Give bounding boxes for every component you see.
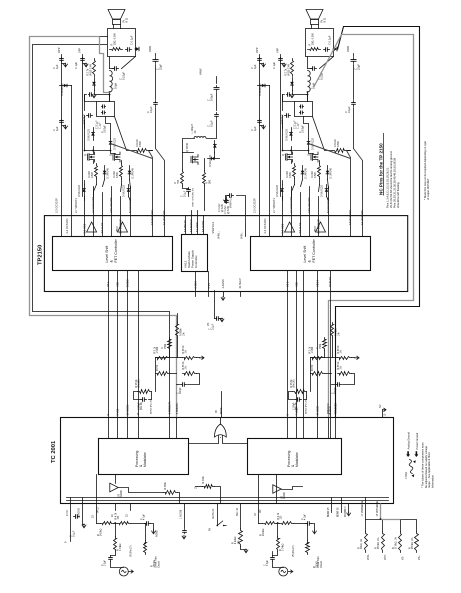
resistor R row1a fb1 (156, 357, 170, 360)
speaker LS1 (108, 10, 125, 20)
transistor Q TIP30 supply switch (191, 155, 198, 165)
resistor R row2a fb2 (311, 372, 325, 376)
sense divider resistor R 287k 1% (382, 532, 385, 553)
wire diagonal load box to filter cap (320, 57, 334, 69)
wire fb mesh 2 (311, 351, 325, 358)
svg-text:(Pin 26): (Pin 26) (139, 379, 141, 387)
svg-text:R 48.7k: R 48.7k (338, 345, 340, 354)
svg-text:3.1 OCSENS: 3.1 OCSENS (163, 210, 166, 225)
svg-text:390pF: 390pF (180, 387, 182, 394)
snubber box channel 1 (97, 102, 115, 117)
resistor R 48.7k row1b fb2 (338, 357, 352, 360)
resistor R 28k fb2 (Pin 26) (293, 390, 307, 394)
svg-text:Circuit: Circuit (320, 561, 323, 568)
svg-text:Power Ground: Power Ground (415, 432, 419, 449)
svg-text:V1B: V1B (295, 282, 299, 287)
resistor R bias 2.7k (93, 59, 96, 77)
wire bridge mesh (283, 121, 292, 151)
capacitor C 4.7uF trim (145, 523, 147, 525)
capacitor C snubber 2 (300, 112, 301, 114)
net arrow fb1 (200, 356, 205, 359)
svg-text:4.6 LLO1: 4.6 LLO1 (298, 222, 302, 233)
svg-text:2.8 LO1COM: 2.8 LO1COM (109, 198, 113, 213)
resistor R 750 supply (181, 170, 184, 186)
capacitor C 1uF lower (61, 120, 63, 121)
capacitor C 4.7uF 6.3V VNW out (226, 197, 228, 200)
svg-text:Modulator: Modulator (143, 451, 147, 467)
svg-text:R 4.7k: R 4.7k (278, 512, 280, 519)
capacitor C snubber top (89, 94, 90, 96)
sense divider resistor R 20k 1% (365, 532, 368, 553)
wire speaker LS1 leads (113, 25, 115, 29)
resistor R row1a fb2 (311, 357, 325, 360)
speaker LS2 (306, 10, 323, 20)
svg-text:VPP: VPP (57, 47, 61, 53)
sense divider resistor R 287k 1% (415, 532, 419, 553)
signal source VI offset (111, 562, 124, 568)
wire VH12 top pins (185, 216, 187, 235)
ground (83, 63, 87, 65)
svg-text:VS: VS (119, 493, 121, 497)
svg-text:750k: 750k (164, 343, 167, 349)
IC processing/modulator channel 2 (248, 439, 342, 475)
IC processing/modulator channel 1 (99, 439, 189, 475)
signal source VI2 offset (273, 562, 284, 568)
pin 17 VNNSENSE (365, 504, 367, 520)
svg-text:D 1N4148: D 1N4148 (305, 168, 308, 179)
wire OCSENS column channel 2 (354, 149, 363, 237)
zener diode VN10 (94, 78, 96, 91)
svg-text:NC: NC (379, 404, 382, 408)
inductor L2 10uH (308, 71, 311, 93)
svg-text:TC 2001: TC 2001 (51, 440, 57, 463)
svg-text:2.8 LO1COM: 2.8 LO1COM (307, 198, 311, 213)
pin BEMF 25 (331, 504, 333, 513)
svg-text:2.7 VBOOT1: 2.7 VBOOT1 (272, 198, 276, 213)
svg-text:VB18: VB18 (315, 226, 317, 232)
svg-text:4.99kΩ: 4.99kΩ (235, 536, 237, 544)
capacitor C snubber top (287, 94, 288, 96)
wire OUT2N feedback loop (outer) (336, 27, 420, 418)
svg-text:C 28pF: C 28pF (139, 402, 141, 410)
svg-text:3.3µF: 3.3µF (267, 559, 269, 566)
resistor R 4.99k beep (239, 529, 243, 547)
svg-text:C 1µF: C 1µF (272, 61, 276, 69)
svg-text:VNW→: VNW→ (218, 231, 221, 239)
svg-text:1µF: 1µF (55, 126, 59, 131)
svg-text:VNW 41.4: VNW 41.4 (212, 221, 215, 233)
svg-text:2.7 VBOOT1: 2.7 VBOOT1 (74, 198, 78, 213)
diode D2a MUR120 (291, 128, 293, 141)
resistor R 88.7k row2b fb2 (338, 372, 352, 376)
wire fb mesh 1 (156, 351, 170, 358)
net arrow VI2 (288, 570, 293, 573)
wire OUT1N feedback loop (33, 45, 170, 418)
svg-text:2.4 OCS1SN: 2.4 OCS1SN (263, 218, 267, 233)
svg-text:C 28pF: C 28pF (294, 402, 296, 410)
svg-text:3.1 OCSENS: 3.1 OCSENS (361, 210, 364, 225)
ground (62, 125, 66, 127)
capacitor C 390pF fb1 (181, 384, 183, 386)
svg-text:0.1µF: 0.1µF (347, 106, 351, 113)
transistor Q2b output MOSFET (311, 152, 318, 162)
wire gray fb taps ch1 (177, 314, 179, 323)
svg-text:of output MOSFET: of output MOSFET (426, 178, 430, 200)
diode D gate a (302, 166, 304, 180)
svg-text:C 1µF: C 1µF (98, 122, 101, 129)
resistor R internal a (164, 491, 178, 495)
svg-text:1µF: 1µF (253, 64, 257, 69)
wire bridge mesh (85, 121, 94, 151)
wire speaker+ to filter (109, 57, 111, 69)
svg-text:VN10 2.4V: VN10 2.4V (288, 64, 291, 76)
capacitor C 1uF VPP bypass 2 (280, 58, 282, 59)
resistor R gate 22 ohm a (95, 164, 98, 179)
inductor L1 10uH (110, 71, 113, 93)
capacitor C 0.1uF VNN (155, 101, 157, 103)
resistor R 150 trim (118, 522, 131, 525)
svg-text:R 360k: R 360k (165, 481, 167, 489)
capacitor C 4.7uF trim ch2 (306, 523, 308, 525)
IC VH12 switch-mode power supply controller (182, 235, 208, 272)
svg-text:R 88.7k: R 88.7k (338, 361, 340, 370)
wire diagonal load box to filter cap (122, 57, 136, 69)
wire internal bottom continuations ch2 (258, 475, 260, 504)
node speaker return junction (307, 91, 309, 93)
svg-text:C 1µF: C 1µF (74, 61, 78, 69)
wire supply mesh (183, 139, 195, 153)
svg-text:8.6 BW PB: 8.6 BW PB (184, 220, 187, 232)
svg-text:360: 360 (209, 179, 212, 184)
pin 20 VP12 (96, 504, 98, 524)
TP2150 pin wires channel 2 (282, 197, 284, 237)
capacitor C snubber 1 (300, 106, 301, 108)
svg-text:D MUR120: D MUR120 (286, 129, 289, 141)
wire VNN rail (155, 65, 157, 100)
svg-text:5 VS: 5 VS (208, 283, 211, 289)
svg-text:4 FBKINV1: 4 FBKINV1 (177, 402, 179, 414)
capacitor C 0.1uF VNN (353, 101, 355, 103)
wire internal pin continuations ch1 (108, 418, 110, 439)
svg-text:VNN-: VNN- (367, 554, 370, 560)
node speaker return junction (109, 91, 111, 93)
svg-text:Pins 1,3,4,8,11,13,15,16,19,26: Pins 1,3,4,8,11,13,15,16,19,26,21, (385, 167, 389, 208)
svg-text:0.1µF: 0.1µF (72, 530, 75, 537)
resistor R 24.9k trim ch2 (263, 522, 277, 525)
wire OUT1P feedback loop (gray) (100, 36, 108, 38)
svg-text:BEF 18: BEF 18 (236, 507, 239, 516)
svg-text:VNW: VNW (199, 68, 203, 75)
resistor R 150 trim ch2 (280, 522, 294, 525)
svg-text:VNN: VNN (148, 46, 152, 52)
svg-text:FBKOUT2: FBKOUT2 (328, 403, 330, 414)
svg-text:D MUR120: D MUR120 (312, 138, 315, 150)
wire speaker+ to filter (307, 57, 309, 69)
switch S1 mute (217, 521, 226, 526)
svg-text:0.1µF: 0.1µF (183, 190, 186, 197)
svg-text:VNW 41.4: VNW 41.4 (230, 196, 233, 208)
svg-text:AGND: AGND (283, 492, 286, 499)
zener diode VN10 (292, 78, 294, 91)
svg-text:1000pF: 1000pF (303, 125, 305, 133)
svg-text:4.7µF: 4.7µF (144, 513, 146, 520)
bus stub BEEP (240, 292, 242, 297)
resistor R 24.9k trim (101, 522, 114, 525)
svg-text:1/16W: 1/16W (157, 346, 159, 353)
svg-text:750k: 750k (319, 343, 322, 349)
svg-text:DCDI 16: DCDI 16 (328, 276, 332, 287)
pin 18 VPPSENSE (gray) (380, 504, 382, 520)
svg-text:C 1µF: C 1µF (296, 122, 299, 129)
svg-text:D MUR120: D MUR120 (61, 83, 64, 96)
svg-text:1%: 1% (186, 350, 188, 353)
wire OCSENS column channel 1 (156, 149, 165, 237)
svg-text:2.3 OCS1SP: 2.3 OCS1SP (55, 198, 59, 213)
svg-text:20kΩ, 1%: 20kΩ, 1% (361, 539, 363, 549)
legend analog ground symbol (406, 451, 410, 457)
svg-text:0.1µF: 0.1µF (211, 323, 214, 330)
svg-text:6 OES: 6 OES (194, 281, 197, 289)
comparator buffer A channel 1 (87, 222, 97, 232)
svg-text:22µF: 22µF (159, 64, 163, 70)
wire gate fan diagonals (292, 185, 295, 197)
svg-text:V5 (Pin 27): V5 (Pin 27) (131, 545, 133, 557)
transistor Q1a output MOSFET (88, 152, 95, 162)
svg-text:2.4 OCS1SN: 2.4 OCS1SN (65, 218, 69, 233)
capacitor C 1uF VPP bypass (259, 58, 261, 59)
capacitor C 0.1uF supply (188, 188, 190, 190)
svg-text:10µH: 10µH (114, 83, 118, 89)
capacitor C 0.22uF bridge left (87, 115, 89, 117)
svg-text:10Ω, 0.2W: 10Ω, 0.2W (113, 33, 117, 46)
svg-text:R 150: R 150 (312, 364, 314, 371)
svg-text:VPP: VPP (276, 48, 280, 53)
resistor R 3.74k trim ch2 (277, 537, 280, 552)
ground (313, 530, 317, 534)
svg-text:18 VPPSENSE: 18 VPPSENSE (377, 500, 379, 516)
diode D1b MUR120 (110, 139, 112, 149)
svg-text:2.7 HO1COM: 2.7 HO1COM (91, 197, 95, 213)
resistor R 750k trim ref ch2 (306, 541, 310, 555)
legend power ground symbol (414, 451, 418, 457)
svg-text:R 4.7k: R 4.7k (116, 512, 118, 519)
diode D gate b (129, 166, 131, 180)
resistor R internal b (203, 485, 215, 489)
resistor R gate 22 ohm a (293, 164, 296, 179)
diode D low b MUR120 (128, 185, 130, 197)
svg-text:VN10 2.4V: VN10 2.4V (90, 64, 93, 76)
wire VNW ch2 (237, 196, 246, 237)
svg-text:10 DCDO: 10 DCDO (127, 405, 130, 416)
svg-text:R 28.0k: R 28.0k (136, 379, 138, 388)
wire OCSENR column channel 2 (347, 151, 351, 237)
TP2150 pin wires channel 1 (84, 197, 86, 237)
svg-text:Q: Q (308, 154, 311, 156)
ground (62, 63, 66, 65)
resistor R 28k fb1 (Pin 26) (138, 390, 152, 394)
svg-text:D MUR120: D MUR120 (78, 185, 81, 197)
svg-text:0.5W: 0.5W (91, 172, 94, 178)
svg-text:9 V1B: 9 V1B (117, 408, 120, 415)
resistor R 3.74k trim (114, 537, 117, 552)
wire filter to bridge (307, 93, 309, 102)
svg-text:2 FBKOUT1: 2 FBKOUT1 (170, 401, 172, 414)
pin VI2 19 (258, 504, 260, 524)
svg-text:3.6 OCSENR: 3.6 OCSENR (349, 210, 352, 225)
svg-text:1000pF: 1000pF (105, 125, 107, 133)
svg-text:should be left floating.: should be left floating. (396, 182, 400, 208)
svg-text:FET Controller: FET Controller (114, 238, 118, 262)
svg-text:VP12: VP12 (98, 507, 100, 513)
svg-text:Circuit: Circuit (157, 561, 160, 568)
capacitor C1z 0.1uF (126, 49, 128, 51)
svg-text:24.9kΩ: 24.9kΩ (101, 528, 103, 536)
ground (241, 547, 247, 550)
svg-text:8.6 6MPGO: 8.6 6MPGO (190, 219, 193, 232)
transistor Q2a output MOSFET (286, 152, 293, 162)
svg-text:1%: 1% (186, 366, 188, 369)
svg-text:10Ω, 0.2W: 10Ω, 0.2W (311, 33, 315, 46)
svg-text:V5 (Pin 27): V5 (Pin 27) (293, 545, 295, 557)
svg-text:@ 6.3V: @ 6.3V (227, 206, 230, 214)
svg-text:BEMF 26: BEMF 26 (338, 507, 340, 517)
capacitor C 390pF fb2 (336, 384, 338, 386)
svg-text:R 48.7k: R 48.7k (183, 345, 185, 354)
svg-text:1 AGND: 1 AGND (222, 279, 225, 288)
svg-text:9V: 9V (209, 528, 212, 531)
resistor R 88.7k row2b fb1 (183, 372, 197, 376)
svg-text:22µF: 22µF (357, 64, 361, 70)
svg-text:AGND (Pin 26): AGND (Pin 26) (305, 399, 308, 414)
svg-text:1/16W: 1/16W (312, 346, 314, 353)
capacitor C snubber 1 (102, 106, 103, 108)
wire VNN to bridge fan (353, 108, 355, 149)
wire OUT2P feedback loop (gray) (314, 35, 414, 418)
svg-text:Controller: Controller (194, 255, 198, 268)
OR gate mute combiner (215, 424, 227, 437)
ground (82, 524, 86, 528)
svg-text:100µF: 100µF (210, 93, 214, 101)
diode D low b MUR120 (326, 185, 328, 197)
svg-text:0.1µF: 0.1µF (210, 120, 214, 127)
svg-text:R 5.1k: R 5.1k (155, 346, 157, 353)
svg-text:NC Pins for the TP 2150: NC Pins for the TP 2150 (378, 143, 383, 195)
diode D MUR120 rail (60, 85, 72, 87)
svg-text:AGND: AGND (156, 530, 159, 537)
svg-text:8 Ω: 8 Ω (323, 18, 327, 22)
wire fan to pin column (111, 144, 153, 159)
capacitor C2z 0.1uF (324, 49, 326, 51)
wire VNN to bridge fan (155, 108, 157, 149)
svg-text:3.6 OCSENR: 3.6 OCSENR (151, 210, 154, 225)
svg-text:14 DCDI: 14 DCDI (317, 406, 320, 416)
wire rail column 71.8 (71, 86, 73, 237)
wire bridge output diagonal (313, 117, 333, 151)
svg-text:R 28.0k: R 28.0k (291, 379, 293, 388)
wire OUT1 sense jog (100, 37, 110, 93)
inductor L 100uH supply (194, 137, 206, 139)
svg-text:25,41,62,63,64 should be tied: 25,41,62,63,64 should be tied to analog … (389, 151, 393, 208)
comparator buffer A channel 2 (285, 222, 295, 232)
svg-text:Q: Q (110, 154, 113, 156)
capacitor C1f 0.22uF (series) (113, 68, 115, 70)
svg-text:C 0.1µF: C 0.1µF (130, 35, 134, 45)
resistor R2z 10ohm 0.2W (308, 48, 321, 51)
svg-text:V5 1: V5 1 (106, 281, 110, 287)
svg-text:VSW TO R (Pin 5?): VSW TO R (Pin 5?) (193, 188, 195, 207)
svg-text:1 MGO8: 1 MGO8 (180, 509, 183, 519)
capacitor C 3.3uF trim (110, 556, 112, 558)
capacitor C2f 0.22uF (series) (311, 68, 313, 70)
svg-text:R 5.1k: R 5.1k (310, 346, 312, 353)
svg-text:Q TIP30: Q TIP30 (186, 142, 189, 152)
diode D gate b (327, 166, 329, 180)
capacitor C snubber 2 (102, 112, 103, 114)
wire speaker LS2 leads (311, 25, 313, 29)
svg-text:MUTE: MUTE (221, 407, 223, 414)
svg-text:1µF: 1µF (253, 126, 257, 131)
svg-text:VB 14: VB 14 (316, 279, 320, 287)
capacitor C 1uF VPP bypass (61, 58, 63, 59)
node trim junction (114, 522, 116, 524)
wire zener to gnd (94, 91, 96, 95)
capacitor C 100uF VNW (216, 86, 218, 88)
svg-text:21 VI: 21 VI (66, 510, 69, 516)
wire sense dividers (366, 520, 383, 532)
svg-text:VNN→: VNN→ (241, 231, 244, 239)
svg-text:Pins 26,29,31,32,36,38,40,46,5: Pins 26,29,31,32,36,38,40,46,53,55,56,58 (392, 157, 396, 208)
svg-text:DCOMP 3: DCOMP 3 (345, 506, 347, 517)
comparator buffer B channel 1 (118, 222, 128, 232)
net arrow VI (128, 570, 133, 573)
svg-text:D MUR120: D MUR120 (114, 138, 117, 150)
ground (182, 535, 186, 539)
svg-text:MUTE 24: MUTE 24 (212, 508, 215, 519)
resistor R 48.7k row1b fb1 (183, 357, 197, 360)
wire internal pin continuations ch2 (287, 418, 289, 439)
svg-text:D MUR120: D MUR120 (209, 155, 212, 167)
svg-text:VNN: VNN (346, 46, 350, 52)
diode D supply rectifier (214, 141, 216, 153)
resistor R bias 2.7k (291, 59, 294, 77)
svg-text:D MUR120: D MUR120 (88, 129, 91, 141)
load network box channel 2 (306, 29, 334, 57)
pin BEMF 26 (341, 504, 343, 513)
svg-text:VS-: VS- (402, 556, 405, 560)
wire mid routing bus ring (44, 216, 407, 292)
pin 13 NC stub (382, 410, 384, 418)
svg-text:41 BEEP: 41 BEEP (239, 278, 242, 288)
resistor R 750k trim ref (144, 541, 147, 555)
load network box channel 1 (108, 29, 136, 57)
wire gate fan diagonals (94, 185, 97, 197)
svg-text:(Pin 26): (Pin 26) (141, 402, 143, 410)
pin 22 VREF (115, 504, 117, 511)
svg-text:0.5W: 0.5W (314, 172, 317, 178)
svg-text:3.3µF: 3.3µF (105, 559, 107, 566)
ground (220, 318, 224, 322)
svg-text:24.9kΩ: 24.9kΩ (263, 528, 265, 536)
svg-text:BEMF 25: BEMF 25 (328, 507, 330, 517)
diode D MUR120 supply (208, 158, 220, 160)
svg-text:8 Ω: 8 Ω (125, 18, 129, 22)
capacitor C 4.7uF VNW ch2 side (228, 195, 230, 197)
svg-text:2.7 HO1COM: 2.7 HO1COM (289, 197, 293, 213)
svg-text:AGND: AGND (120, 490, 123, 497)
svg-text:1%: 1% (238, 541, 240, 544)
diode D1a MUR120 (93, 128, 95, 141)
IC U2 TP2150 level shift / FET controller (251, 237, 371, 271)
